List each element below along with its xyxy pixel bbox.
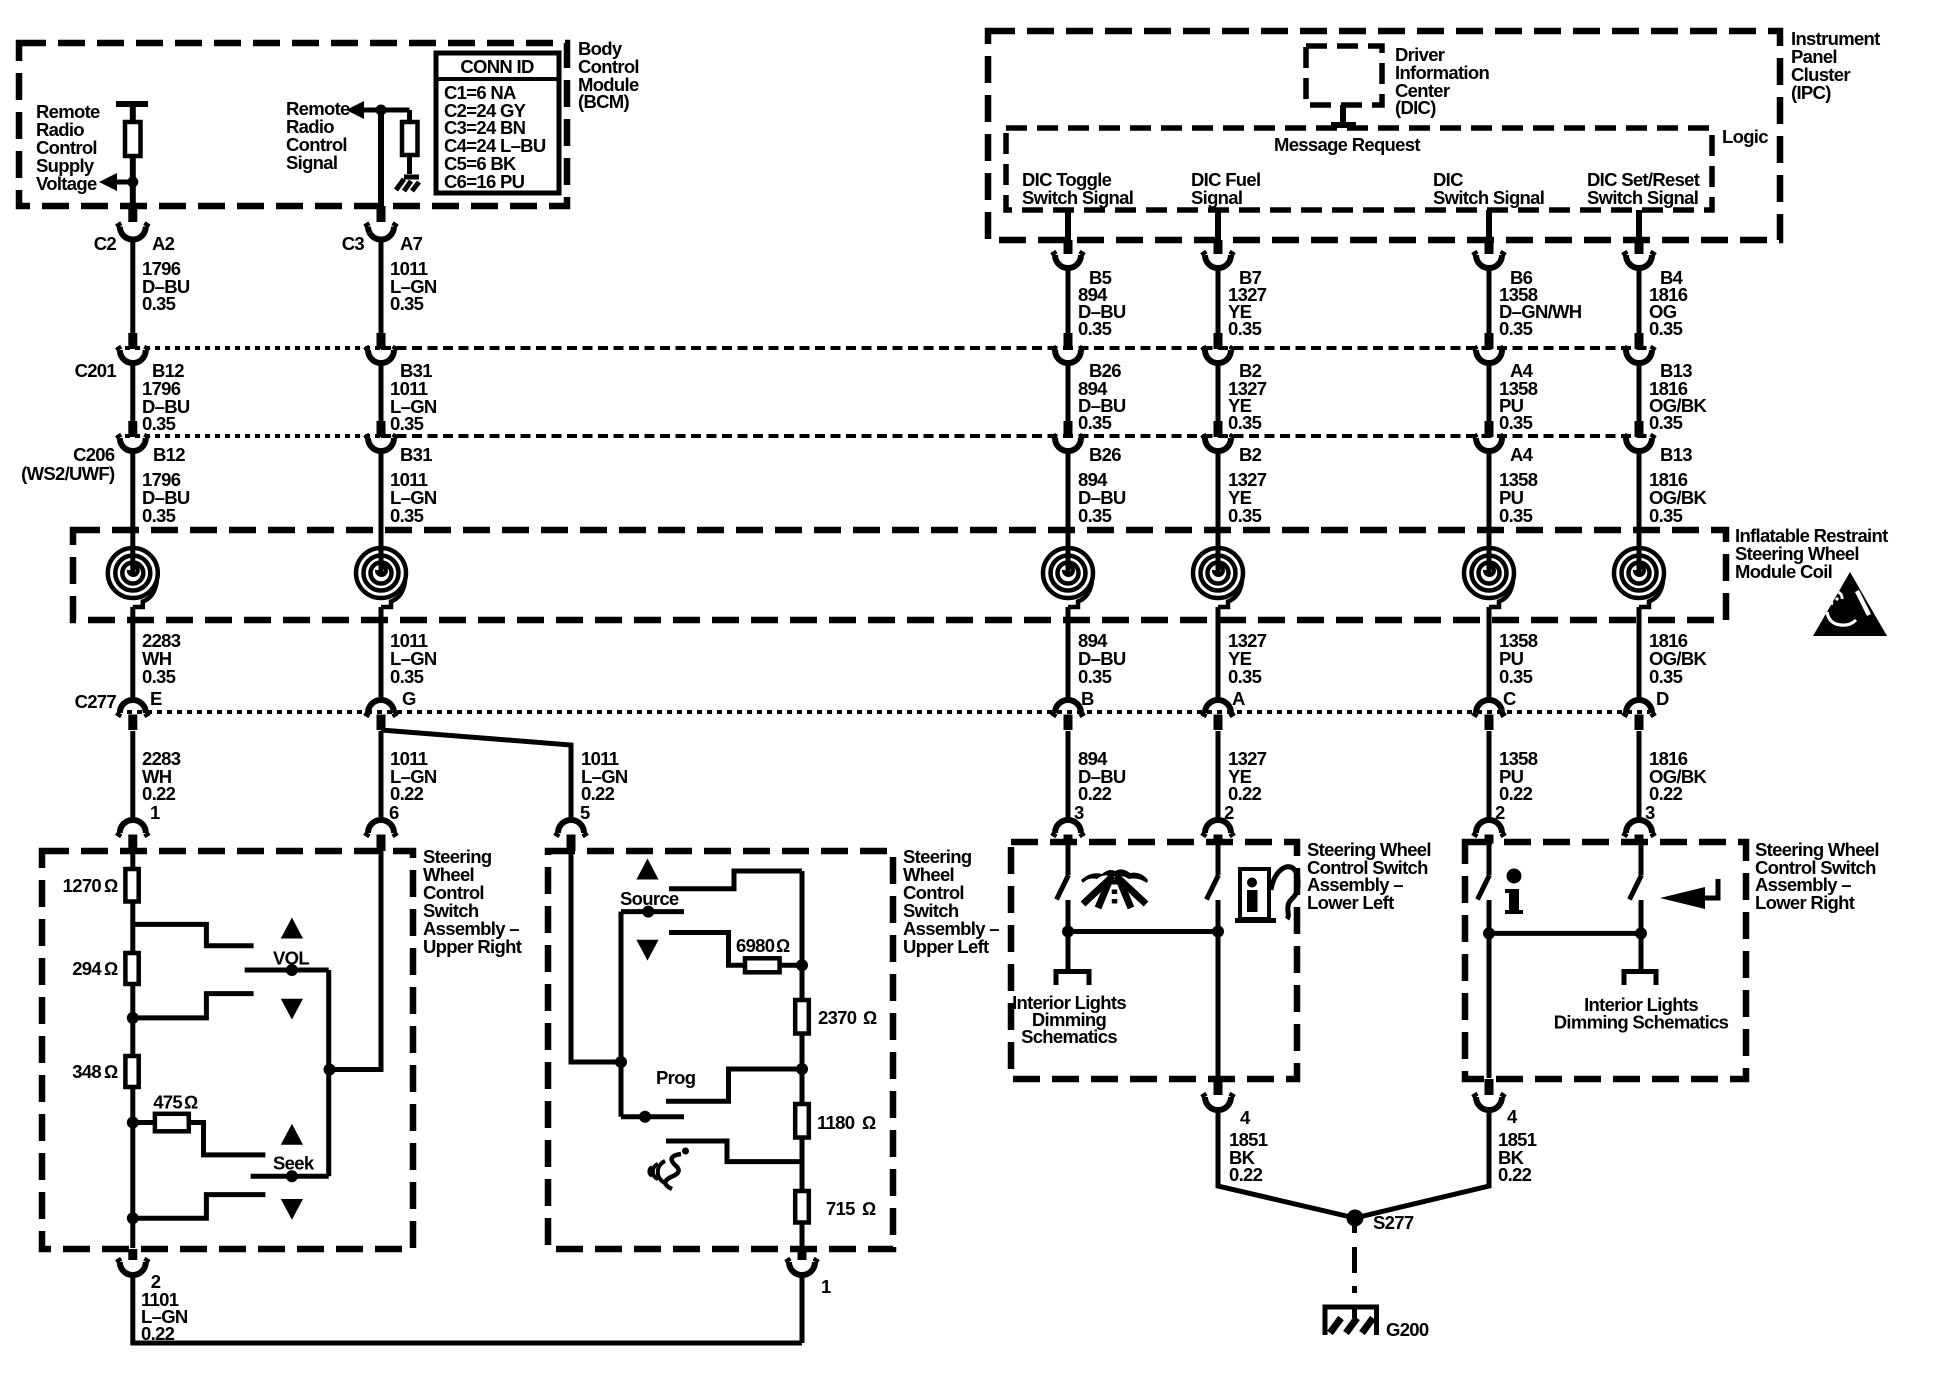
coil: SIR coil w1 (108, 548, 158, 607)
icon: information i (1505, 869, 1523, 915)
wire: 1011 L-GN 0.35 (C206 to coil) (379, 451, 384, 575)
wire: Seek up contact branch (189, 1123, 266, 1155)
svg-text:C201: C201 (75, 360, 117, 381)
resistor 1270 ohm (125, 869, 138, 902)
svg-text:0.35: 0.35 (142, 413, 176, 434)
svg-text:0.35: 0.35 (1078, 318, 1112, 339)
wire: chain 348 to bottom (130, 1087, 135, 1248)
wire: 894 D-BU 0.35 (IPC to C201) (1066, 268, 1071, 333)
label: DIC Fuel Signal (1191, 169, 1260, 208)
connector pin3 dome w3 (1053, 820, 1083, 837)
svg-text:Module Coil: Module Coil (1735, 561, 1832, 582)
connector C206 cup w4 (1203, 435, 1233, 452)
icon: Source down triangle (636, 940, 658, 961)
svg-text:0.22: 0.22 (1229, 1164, 1263, 1185)
svg-text:0.22: 0.22 (1228, 783, 1262, 804)
svg-text:D: D (1656, 688, 1669, 709)
box: Steering Wheel Control Switch Assembly - Lower Right (1465, 842, 1746, 1079)
svg-text:Seek: Seek (273, 1153, 315, 1174)
module box: Body Control Module (BCM) (19, 43, 567, 206)
svg-text:C206: C206 (73, 444, 115, 465)
connector pin2 terminal stub w4 (1214, 835, 1223, 844)
icon: SIR airbag warning triangle (1813, 572, 1887, 636)
svg-text:(WS2/UWF): (WS2/UWF) (21, 463, 115, 484)
svg-text:B2: B2 (1239, 444, 1262, 465)
wire: 1796 D-BU 0.35 (C201 to C206) (130, 363, 135, 421)
svg-text:0.22: 0.22 (1649, 783, 1683, 804)
connector pin3 dome w6 (1624, 820, 1654, 837)
connector C3 cup (366, 223, 396, 240)
wire: pole bus (326, 970, 331, 1176)
svg-text:Logic: Logic (1722, 126, 1768, 147)
junction (127, 177, 138, 188)
connector pin4 bottom cup LL (1203, 1094, 1233, 1111)
box: Logic (1006, 128, 1712, 210)
connector C206 cup w3 (1053, 435, 1083, 452)
svg-text:Voltage: Voltage (36, 173, 97, 194)
svg-text:C6=16 PU: C6=16 PU (444, 171, 525, 192)
wire: chain 1270 to 294 (130, 902, 135, 954)
connector C201 cup w2 (366, 347, 396, 364)
wire: bus 1180 to 715 (800, 1138, 805, 1192)
svg-text:1: 1 (150, 802, 160, 823)
connector C277 terminal stub w2 (377, 715, 386, 731)
svg-text:Dimming Schematics: Dimming Schematics (1554, 1012, 1729, 1033)
connector pin2 dome w4 (1203, 820, 1233, 837)
wire: 1851 BK 0.22 to S277 LR (1355, 1110, 1489, 1218)
icon: fuel pump (1235, 867, 1298, 923)
svg-text:4: 4 (1240, 1107, 1251, 1128)
resistor: BCM supply pull-up (125, 122, 141, 156)
wire: DIC toggle signal drop (1065, 210, 1071, 240)
svg-text:0.35: 0.35 (1078, 666, 1112, 687)
wire: 1816 OG/BK 0.35 (C201 to C206) (1637, 363, 1642, 421)
svg-text:E: E (150, 688, 162, 709)
wire: right bus top (800, 871, 805, 1000)
wire: DIC set/reset signal drop (1636, 210, 1642, 240)
box: Steering Wheel Control Switch Assembly - Upper Left (548, 851, 893, 1249)
wire: cross link w5-w6 (1489, 931, 1641, 936)
svg-text:0.22: 0.22 (1499, 783, 1533, 804)
svg-text:5: 5 (580, 802, 590, 823)
connector C206 cup w5 (1474, 435, 1504, 452)
svg-text:0.35: 0.35 (1649, 318, 1683, 339)
connector pin3 terminal stub w6 (1635, 835, 1644, 844)
junction: Source pole dot (642, 906, 654, 918)
svg-text:348: 348 (72, 1061, 101, 1082)
svg-text:Switch Signal: Switch Signal (1022, 187, 1133, 208)
svg-text:0.22: 0.22 (390, 783, 424, 804)
connector pin2 dome w5 (1474, 820, 1504, 837)
node: supply voltage T terminal (116, 101, 148, 107)
connector C277 terminal stub w4 (1214, 715, 1223, 731)
svg-text:294: 294 (72, 958, 102, 979)
svg-text:A4: A4 (1510, 444, 1534, 465)
wire: pin 5 into box (571, 851, 621, 1062)
connector C201 terminal stub w2 (377, 333, 386, 349)
svg-text:Switch Signal: Switch Signal (1433, 187, 1544, 208)
svg-text:C3: C3 (342, 233, 365, 254)
wire: 6980 to bus (780, 963, 802, 968)
connector C277 terminal stub w5 (1485, 715, 1494, 731)
connector pin1 terminal stub w1 (128, 835, 137, 852)
svg-text:G200: G200 (1386, 1319, 1429, 1340)
connector B5 terminal stub (1064, 240, 1073, 254)
icon: set/reset arrow (1660, 879, 1718, 909)
svg-text:A2: A2 (152, 233, 175, 254)
connector C277 terminal stub w6 (1635, 715, 1644, 731)
wire: 1327 YE 0.35 (C201 to C206) (1216, 363, 1221, 421)
svg-text:G: G (402, 688, 416, 709)
switch: DIC set/reset switch w6 (1639, 843, 1644, 875)
svg-text:Upper Right: Upper Right (423, 936, 522, 957)
wire: Seek down contact branch (133, 1195, 266, 1219)
junction: Seek pole dot (286, 1170, 298, 1182)
wire: 894 D-BU 0.35 (C201 to C206) (1066, 363, 1071, 421)
svg-text:B12: B12 (153, 444, 185, 465)
connector C277 dome w4 (1203, 700, 1233, 717)
wire: 1011 L-GN 0.22 pin 6 branch (379, 731, 384, 820)
wire: 1358 PU 0.35 (C206 to coil) (1487, 451, 1492, 575)
junction: bus at Prog contact (796, 1063, 808, 1075)
svg-text:0.35: 0.35 (142, 293, 176, 314)
wire: VOL pole (245, 968, 329, 973)
coil: SIR coil w4 (1193, 548, 1243, 607)
icon: toggle/trip symbol (1081, 869, 1148, 908)
svg-text:B26: B26 (1089, 444, 1121, 465)
svg-text:4: 4 (1507, 1106, 1518, 1127)
wire: w1 inside BCM (130, 101, 136, 122)
svg-text:0.35: 0.35 (1499, 666, 1533, 687)
svg-text:0.35: 0.35 (1499, 318, 1533, 339)
wire: pin1 drop to bottom link (800, 1275, 805, 1343)
junction: w4 lamp tap (1212, 926, 1224, 938)
wire: w2 inside BCM (378, 110, 384, 206)
svg-text:0.22: 0.22 (581, 783, 615, 804)
svg-text:(BCM): (BCM) (578, 91, 629, 112)
svg-text:CONN ID: CONN ID (460, 56, 534, 77)
svg-text:B31: B31 (400, 444, 432, 465)
icon: VOL down triangle (281, 999, 303, 1020)
connector row C277 dotted line (127, 710, 1650, 714)
connector C201 cup w4 (1203, 347, 1233, 364)
connector C201 terminal stub w1 (128, 333, 137, 349)
junction (376, 105, 387, 116)
svg-text:Switch Signal: Switch Signal (1587, 187, 1698, 208)
svg-text:0.35: 0.35 (390, 413, 424, 434)
wire: 1011 L-GN 0.35 (coil to C277) (379, 607, 384, 701)
svg-text:B13: B13 (1660, 444, 1692, 465)
svg-text:0.35: 0.35 (1078, 505, 1112, 526)
box: Inflatable Restraint Steering Wheel Module Coil (73, 530, 1726, 620)
coil: SIR coil w3 (1043, 548, 1093, 607)
junction: bus to pin 6 (324, 1064, 336, 1076)
connector C206 cup w6 (1624, 435, 1654, 452)
connector C2 cup (118, 223, 148, 240)
connector B4 terminal stub (1635, 240, 1644, 254)
ground G200 (1323, 1305, 1380, 1335)
icon: Source up triangle (636, 859, 658, 880)
wire: 1011 L-GN 0.35 (BCM to C201) (379, 240, 384, 334)
wire: 1816 OG/BK 0.22 (C277 to switch) (1637, 731, 1642, 820)
wire: 894 D-BU 0.35 (coil to C277) (1066, 607, 1071, 701)
svg-text:Ω: Ω (104, 875, 118, 896)
svg-text:475: 475 (153, 1092, 182, 1113)
wire: DIC switch signal drop (1486, 210, 1492, 240)
svg-text:0.35: 0.35 (1078, 412, 1112, 433)
junction: pin 5 to pole bus (615, 1056, 627, 1068)
label: DIC Switch Signal (1433, 169, 1544, 208)
svg-text:0.35: 0.35 (1649, 412, 1683, 433)
wire: 1358 PU 0.22 (C277 to switch) (1487, 731, 1492, 820)
connector C201 terminal stub w4 (1214, 333, 1223, 349)
svg-text:Upper Left: Upper Left (903, 936, 989, 957)
wire: 894 D-BU 0.35 (C206 to coil) (1066, 451, 1071, 575)
connector C277 dome w3 (1053, 700, 1083, 717)
table: CONN ID (436, 53, 559, 193)
wire: 1816 OG/BK 0.35 (coil to C277) (1637, 607, 1642, 701)
wire: to 475 resistor (133, 1120, 155, 1125)
connector B7 cup (1203, 252, 1233, 269)
svg-text:0.35: 0.35 (1499, 505, 1533, 526)
svg-text:0.35: 0.35 (1228, 505, 1262, 526)
svg-text:Signal: Signal (286, 152, 337, 173)
connector pin5 dome (556, 820, 586, 837)
connector C206 terminal stub w5 (1485, 421, 1494, 437)
wire: 1327 YE 0.35 (coil to C277) (1216, 607, 1221, 701)
connector C201 terminal stub w6 (1635, 333, 1644, 349)
label: Remote Radio Control Supply Voltage (36, 101, 100, 194)
svg-text:Schematics: Schematics (1021, 1026, 1117, 1047)
junction: VOL pole dot (286, 964, 298, 976)
resistor 294 ohm (125, 953, 138, 984)
wire: 1327 YE 0.35 (C206 to coil) (1216, 451, 1221, 575)
svg-text:C2: C2 (94, 233, 117, 254)
svg-text:6: 6 (389, 802, 399, 823)
connector pin2 bottom cup (118, 1259, 148, 1276)
svg-text:Ω: Ω (184, 1092, 198, 1113)
wire: 1816 OG 0.35 (IPC to C201) (1637, 268, 1642, 333)
wire: 1796 D-BU 0.35 (C206 to coil) (130, 451, 135, 575)
icon: Seek down triangle (281, 1199, 303, 1220)
svg-text:C: C (1503, 688, 1516, 709)
wire: 1816 OG/BK 0.35 (C206 to coil) (1637, 451, 1642, 575)
connector C206 terminal stub w6 (1635, 421, 1644, 437)
box: Driver Information Center (DIC) (1306, 46, 1382, 105)
wire: w3 to dimming stub (1066, 932, 1071, 972)
svg-text:0.35: 0.35 (1649, 505, 1683, 526)
wire: 1358 PU 0.35 (coil to C277) (1487, 607, 1492, 701)
wire: S277 to G200 dashed (1352, 1226, 1357, 1318)
wire: 1011 L-GN 0.35 (C201 to C206) (379, 363, 384, 421)
junction: chain at VOL down (127, 1012, 139, 1024)
wire: left pole bus (619, 912, 624, 1117)
svg-text:Ω: Ω (862, 1198, 876, 1219)
icon: voice recognition (649, 1148, 689, 1190)
connector C201 terminal stub w5 (1485, 333, 1494, 349)
svg-text:Prog: Prog (656, 1067, 696, 1088)
resistor 715 ohm (795, 1191, 809, 1223)
box: Steering Wheel Control Switch Assembly - Upper Right (42, 851, 413, 1249)
wire: branch to signal resistor (407, 110, 412, 122)
wire: w5 down to pin 4 (1487, 933, 1492, 1078)
junction: bus at 6980 (796, 959, 808, 971)
connector pin6 dome (366, 820, 396, 837)
resistor 2370 ohm (795, 1000, 809, 1034)
wire: Prog pole (621, 1114, 684, 1119)
connector C206 terminal stub w1 (128, 421, 137, 437)
wire: bus 2370 to 1180 (800, 1034, 805, 1105)
svg-text:0.22: 0.22 (1498, 1164, 1532, 1185)
wire: w6 to dimming stub (1639, 933, 1644, 971)
arrow: supply voltage to radio (99, 173, 117, 191)
wire: cross link w3-w4 (1068, 929, 1218, 934)
svg-text:1270: 1270 (63, 875, 102, 896)
wire: Source down contact to 6980 (669, 933, 745, 966)
icon: VOL up triangle (281, 918, 303, 939)
svg-text:(IPC): (IPC) (1791, 82, 1831, 103)
wire: chain 294 to 348 (130, 984, 135, 1056)
wire: 1327 YE 0.35 (IPC to C201) (1216, 268, 1221, 333)
svg-text:Ω: Ω (104, 1061, 118, 1082)
svg-text:A: A (1232, 688, 1245, 709)
resistor 475 ohm (155, 1114, 189, 1132)
connector C201 cup w5 (1474, 347, 1504, 364)
ground: BCM internal chassis ground (396, 177, 419, 191)
icon: Seek up triangle (281, 1124, 303, 1145)
coil: SIR coil w5 (1464, 548, 1514, 607)
svg-text:Ω: Ω (104, 958, 118, 979)
connector B7 terminal stub (1214, 240, 1223, 254)
label: Interior Lights Dimming Schematics LR (1554, 994, 1729, 1033)
wire: 2283 WH 0.35 (coil to C277) (130, 607, 135, 701)
connector C201 cup w1 (118, 347, 148, 364)
coil: SIR coil w2 (356, 548, 406, 607)
svg-text:0.35: 0.35 (142, 505, 176, 526)
connector C277 dome w5 (1474, 700, 1504, 717)
connector C206 terminal stub w2 (377, 421, 386, 437)
label: Remote Radio Control Signal (286, 98, 350, 173)
wire: VOL up contact branch (133, 924, 254, 945)
switch: DIC info switch w5 (1487, 843, 1492, 875)
wire: Source pole (621, 909, 684, 914)
label: pin 4 wire 1851 BK 0.22 LR (1498, 1106, 1537, 1185)
svg-text:Lower Left: Lower Left (1307, 892, 1394, 913)
svg-text:0.35: 0.35 (1649, 666, 1683, 687)
svg-text:0.35: 0.35 (1228, 318, 1262, 339)
wire: resistor chain top (pin 1 into box) (130, 851, 135, 869)
svg-text:0.35: 0.35 (390, 293, 424, 314)
wire: Seek pole (251, 1174, 329, 1179)
connector C277 dome w6 (1624, 700, 1654, 717)
svg-text:A7: A7 (400, 233, 423, 254)
svg-text:B: B (1081, 688, 1094, 709)
connector pin1 dome w1 (118, 820, 148, 836)
svg-text:0.35: 0.35 (390, 666, 424, 687)
junction: Prog pole dot (639, 1111, 651, 1123)
svg-text:0.35: 0.35 (1499, 412, 1533, 433)
connector C206 terminal stub w3 (1064, 421, 1073, 437)
svg-text:Ω: Ω (863, 1007, 877, 1028)
connector pin2 bottom stub (128, 1249, 137, 1260)
svg-text:Ω: Ω (776, 935, 790, 956)
wire: Prog contact (666, 1069, 802, 1101)
junction: w5 lamp tap (1483, 927, 1495, 939)
connector C201 terminal stub w3 (1064, 333, 1073, 349)
connector C201 cup w3 (1053, 347, 1083, 364)
svg-text:Message Request: Message Request (1274, 134, 1420, 155)
svg-text:0.35: 0.35 (390, 505, 424, 526)
connector C206 cup w2 (366, 435, 396, 452)
connector C277 dome w1 (118, 700, 148, 716)
connector C277 terminal stub w1 (128, 715, 137, 731)
symbol: interior lights dimming stub LR (1624, 972, 1656, 986)
wire: 1358 D-GN/WH 0.35 (IPC to C201) (1487, 268, 1492, 333)
label: DIC Toggle Switch Signal (1022, 169, 1133, 208)
arrow: signal to radio (346, 101, 364, 119)
junction: w6 lamp tap (1635, 927, 1647, 939)
wire (407, 155, 412, 174)
box: Steering Wheel Control Switch Assembly - Lower Left (1011, 842, 1297, 1079)
wire: 1011 L-GN 0.22 pin 5 branch diagonal (381, 730, 571, 820)
svg-text:715: 715 (826, 1198, 855, 1219)
svg-text:Lower Right: Lower Right (1755, 892, 1855, 913)
connector row C201 dashed line (125, 346, 381, 350)
wire: 2283 WH 0.22 (C277 to switch) (130, 731, 135, 820)
wire: 1101 L-GN 0.22 bottom link (133, 1275, 802, 1343)
resistor: BCM signal pull-down (402, 122, 418, 155)
label: Interior Lights Dimming Schematics (1012, 992, 1126, 1047)
connector B5 cup (1053, 252, 1083, 269)
connector pin2 terminal stub w5 (1485, 835, 1494, 844)
svg-text:0.35: 0.35 (142, 666, 176, 687)
connector C201 cup w6 (1624, 347, 1654, 364)
connector pin1 bottom cup (787, 1259, 817, 1276)
wire: DIC box stub to Logic box (1340, 105, 1346, 125)
resistor 1180 ohm (795, 1104, 809, 1138)
wire: 1327 YE 0.22 (C277 to switch) (1216, 731, 1221, 820)
wire: 894 D-BU 0.22 (C277 to switch) (1066, 731, 1071, 820)
wire: w4 down to pin 4 (1216, 932, 1221, 1079)
label: DIC Set/Reset Switch Signal (1587, 169, 1700, 208)
coil: SIR coil w6 (1614, 548, 1664, 607)
wire: 1358 PU 0.35 (C201 to C206) (1487, 363, 1492, 421)
connector C206 terminal stub w4 (1214, 421, 1223, 437)
svg-text:Ω: Ω (862, 1112, 876, 1133)
connector pin4 bottom cup LR (1474, 1094, 1504, 1111)
switch: DIC fuel switch w4 (1216, 843, 1221, 875)
switch: DIC toggle switch w3 (1066, 843, 1071, 875)
connector pin4 bottom stub LL (1214, 1079, 1223, 1095)
connector pin4 bottom stub LR (1485, 1079, 1494, 1095)
wire (130, 156, 136, 206)
svg-text:0.35: 0.35 (1228, 666, 1262, 687)
splice S277 (1347, 1210, 1364, 1227)
connector B4 cup (1624, 252, 1654, 269)
wire: voice contact (666, 1141, 802, 1162)
connector B6 terminal stub (1485, 240, 1494, 254)
wire: bus to pin 6 riser (329, 851, 381, 1070)
junction: w3 lamp tap (1062, 926, 1074, 938)
svg-text:C277: C277 (75, 691, 117, 712)
svg-text:6980: 6980 (736, 935, 775, 956)
svg-text:Signal: Signal (1191, 187, 1242, 208)
svg-text:0.22: 0.22 (1078, 783, 1112, 804)
wire: Source up contact (669, 871, 802, 889)
resistor 6980 ohm (745, 958, 780, 972)
wire: DIC fuel signal drop (1215, 210, 1221, 240)
connector pin3 terminal stub w3 (1064, 835, 1073, 844)
